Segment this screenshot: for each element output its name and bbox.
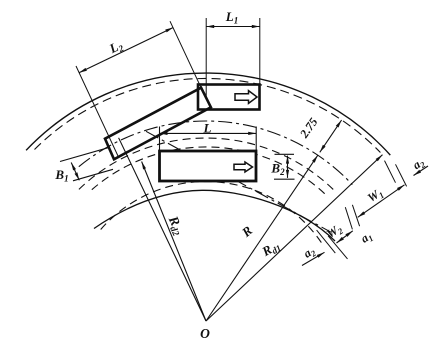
B2 double arrow (287, 156, 289, 178)
direction arrow inside vehicle 2 (234, 162, 253, 172)
vehicle B (tilted truck on tangent), transparent (105, 88, 211, 160)
L dimension line (160, 132, 257, 134)
vehicle A (outer lane truck on curve, white filled) (198, 85, 260, 110)
a2 outer widening dimension arrow (414, 166, 429, 176)
L2 dimension line (79, 28, 173, 73)
L1 dimension extension lines (205, 18, 207, 99)
L2 dimension extension lines (76, 66, 118, 156)
tick: a1 boundary B (352, 205, 359, 226)
tick: widened inner edge boundary (317, 230, 336, 253)
tick: a1 boundary A (345, 207, 352, 229)
direction arrow inside vehicle A (235, 91, 257, 104)
tick: outer widened edge boundary (396, 164, 407, 186)
tick: outer original edge boundary (385, 161, 396, 183)
2.75 lane width dimension (radial) (320, 120, 342, 152)
outer solid arc (widened outer road edge) (26, 73, 390, 155)
radius line R (to centerline) (206, 155, 318, 321)
radius line Rd2 (with arrow, to inner dashed arc) (142, 162, 206, 322)
vehicle 2 (inner lane truck, white filled) (160, 151, 257, 181)
L1 dimension line (206, 26, 260, 28)
B2 extension lines (275, 153, 295, 155)
tick: original inner edge boundary (328, 236, 347, 259)
B1 extension lines (60, 147, 110, 161)
W1 lane width dimension (358, 185, 405, 218)
mid dashed arc r=174 (92, 147, 327, 196)
outer dashed arc (original outer road edge) (35, 78, 381, 152)
inner dashed arc (original inner edge) (101, 182, 323, 244)
B1 double arrow (71, 163, 79, 181)
radius line Rd1 (to outer original edge) (206, 155, 383, 321)
svg-text:O: O (200, 326, 210, 341)
straight dash-dot vehicle path tangent line (146, 131, 331, 232)
inner solid arc (widened inner edge) (94, 190, 335, 241)
mid dashed arc r=183 (79, 138, 337, 193)
a2 inner widening dimension arrow (302, 252, 325, 265)
road centerline dash-dot arc R=200 (79, 121, 353, 185)
L dimension extension lines (159, 127, 161, 152)
W2 lane width dimension (337, 231, 353, 243)
svg-text:L: L (203, 121, 212, 136)
radius ray to rear axle of tilted vehicle (119, 138, 206, 321)
